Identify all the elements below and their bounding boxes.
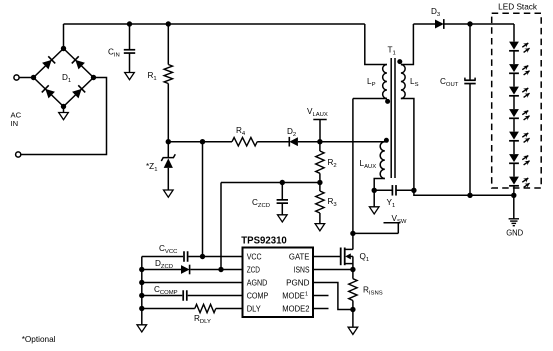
svg-text:IN: IN [11,119,19,128]
svg-text:TPS92310: TPS92310 [241,235,287,246]
svg-text:*Optional: *Optional [22,334,56,344]
svg-text:ZCD: ZCD [247,265,260,275]
svg-text:PGND: PGND [286,278,309,288]
svg-text:VCC: VCC [247,252,262,262]
svg-text:MODE: MODE [282,291,305,301]
svg-text:GATE: GATE [289,252,310,262]
svg-text:ISNS: ISNS [294,265,310,275]
svg-text:LED Stack: LED Stack [498,3,538,12]
svg-text:1: 1 [305,292,308,298]
svg-text:DLY: DLY [247,304,261,314]
svg-text:COMP: COMP [247,291,269,301]
svg-text:MODE2: MODE2 [282,304,309,314]
svg-text:AGND: AGND [247,278,268,288]
svg-text:GND: GND [506,228,523,238]
